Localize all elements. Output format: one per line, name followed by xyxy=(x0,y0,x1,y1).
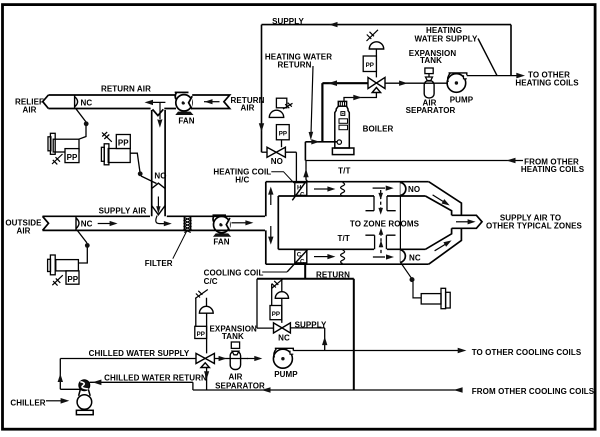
pipe heating supply main xyxy=(262,25,512,153)
arrow chilled return mid xyxy=(262,387,271,393)
pipe boiler outlet xyxy=(344,93,376,103)
svg-text:PUMP: PUMP xyxy=(274,370,298,379)
arrow return air flow left xyxy=(204,101,220,103)
svg-text:BOILER: BOILER xyxy=(363,124,394,133)
mixing box outer shell xyxy=(425,182,482,265)
svg-text:C: C xyxy=(297,252,302,259)
svg-text:NC: NC xyxy=(81,220,93,229)
return air entry duct xyxy=(192,95,230,109)
arrow into boiler xyxy=(311,139,319,144)
svg-text:AIR: AIR xyxy=(16,227,30,236)
arrow boiler outlet xyxy=(353,95,362,100)
svg-text:RETURN: RETURN xyxy=(278,61,312,70)
svg-text:FILTER: FILTER xyxy=(145,259,173,268)
svg-text:PP: PP xyxy=(272,311,280,318)
pipe from other heating coils xyxy=(305,160,523,162)
svg-text:PP: PP xyxy=(366,62,374,69)
arrow from other cooling coils xyxy=(454,387,463,393)
svg-text:FAN: FAN xyxy=(178,116,194,125)
pipe boiler return header xyxy=(305,83,337,160)
arrow mixed air into supply duct xyxy=(156,216,166,224)
outside air duct xyxy=(43,216,266,230)
wire chiller label arrow xyxy=(46,400,61,402)
svg-text:PP: PP xyxy=(279,131,287,138)
actuator PP chilled valve xyxy=(195,290,213,354)
valve NC cooling coil xyxy=(257,279,325,351)
damper zone hot deck xyxy=(366,186,396,215)
svg-text:SUPPLY AIR: SUPPLY AIR xyxy=(99,207,147,216)
damper NC zone semicircle xyxy=(400,250,405,263)
damper NC outside air blade xyxy=(76,217,79,230)
svg-text:AIR: AIR xyxy=(22,106,36,115)
svg-text:WATER SUPPLY: WATER SUPPLY xyxy=(415,35,479,44)
return air line from zones xyxy=(257,264,354,390)
svg-text:NC: NC xyxy=(278,334,290,343)
damper rod zone NO/NC xyxy=(400,182,421,298)
pump heating xyxy=(447,73,467,92)
arrow mixed air down xyxy=(157,197,159,208)
air separator chilled xyxy=(230,351,240,369)
node relief linkage xyxy=(84,121,89,126)
actuator PP heating coil valve xyxy=(269,98,292,147)
wire outside air damper linkage xyxy=(77,230,87,263)
arrow chilled bypass down xyxy=(204,371,209,379)
arrow plenum up xyxy=(270,193,272,206)
svg-text:T/T: T/T xyxy=(338,167,350,176)
fan return-air xyxy=(175,92,194,115)
actuator PP NC valve xyxy=(270,279,289,323)
svg-text:OTHER TYPICAL ZONES: OTHER TYPICAL ZONES xyxy=(486,222,583,231)
wire heating coil label leader xyxy=(271,172,294,183)
heating coil H/C box xyxy=(292,180,307,201)
arrow chilled return into chiller xyxy=(92,380,101,386)
svg-text:CHILLER: CHILLER xyxy=(10,398,45,407)
damper NO mixing capsule xyxy=(152,183,165,215)
actuator PP mixing damper NO xyxy=(101,132,130,165)
vertical mixing duct xyxy=(152,110,165,216)
arrow from other heating coils xyxy=(507,158,516,164)
arrow heating coil return up xyxy=(303,169,308,178)
damper NO zone semicircle xyxy=(400,182,405,195)
svg-text:C: C xyxy=(300,192,305,199)
pump chilled xyxy=(273,348,293,368)
node zone damper rod xyxy=(410,277,415,282)
svg-text:PP: PP xyxy=(197,331,205,338)
svg-text:SEPARATOR: SEPARATOR xyxy=(406,106,456,115)
wire heating water supply leader xyxy=(478,39,497,76)
valve 3-way boiler with PP xyxy=(322,77,448,92)
svg-text:SUPPLY: SUPPLY xyxy=(295,320,327,329)
node mixing linkage xyxy=(138,171,143,176)
arrow chiller outlet up xyxy=(58,374,63,382)
arrow hot deck flow xyxy=(314,188,329,190)
svg-text:T/T: T/T xyxy=(338,234,350,243)
arrow chilled supply up to NC valve xyxy=(322,337,327,346)
arrow to other cooling coils xyxy=(458,348,467,354)
svg-text:PP: PP xyxy=(67,153,78,162)
pipe chilled supply riser chiller xyxy=(60,359,80,390)
damper NC relief blade xyxy=(75,95,78,108)
sensor T/T cold deck xyxy=(341,250,345,264)
valve 3-way chilled with dome xyxy=(60,353,248,367)
expansion tank chilled xyxy=(231,342,239,355)
arrow heating supply down xyxy=(259,123,264,132)
return duct tee splitter xyxy=(153,109,164,115)
wire cooling coil label leader xyxy=(262,271,287,273)
wire mixing damper linkage xyxy=(130,153,156,183)
arrow supply air flow xyxy=(232,222,248,224)
boiler xyxy=(332,101,354,154)
arrow supply to zones xyxy=(456,221,469,223)
actuator PP outside air damper xyxy=(48,255,79,286)
arrow heating supply left xyxy=(329,22,338,27)
arrow return air to relief xyxy=(150,102,165,119)
pipe chilled water return xyxy=(90,382,462,390)
svg-text:TO OTHER COOLING COILS: TO OTHER COOLING COILS xyxy=(472,348,582,357)
svg-text:TANK: TANK xyxy=(420,56,442,65)
svg-text:NO: NO xyxy=(154,172,166,181)
arrow cold branch flow xyxy=(435,244,446,251)
air separator heating xyxy=(424,81,434,98)
chiller xyxy=(76,380,93,415)
return air duct xyxy=(43,95,176,216)
svg-text:SUPPLY: SUPPLY xyxy=(272,17,304,26)
pipe heating water return leader xyxy=(311,66,313,134)
svg-text:AIR: AIR xyxy=(228,373,242,382)
fan supply-air xyxy=(213,215,232,237)
arrow heating supply right xyxy=(399,81,408,86)
arrow cold deck flow xyxy=(314,256,329,258)
expansion tank heating xyxy=(425,68,433,81)
svg-text:NO: NO xyxy=(271,157,283,166)
svg-text:PP: PP xyxy=(118,139,129,148)
node outside air linkage xyxy=(85,243,90,248)
svg-text:CHILLED WATER RETURN: CHILLED WATER RETURN xyxy=(104,373,207,382)
svg-text:HEATING COILS: HEATING COILS xyxy=(521,165,585,174)
arrow plenum down xyxy=(270,226,272,239)
svg-text:C/C: C/C xyxy=(204,277,218,286)
actuator PP relief damper xyxy=(48,133,79,164)
arrow heating bypass left xyxy=(328,80,337,86)
svg-text:FROM OTHER COOLING COILS: FROM OTHER COOLING COILS xyxy=(472,387,595,396)
arrow to other heating coils xyxy=(516,73,525,79)
arrow outside air flow xyxy=(98,223,111,225)
svg-text:FAN: FAN xyxy=(213,237,229,246)
relief air outlet arrow end xyxy=(43,95,49,109)
arrow chilled supply after separator xyxy=(247,358,256,360)
pipe to other cooling coils xyxy=(293,350,459,352)
actuator PP boiler valve xyxy=(363,30,383,78)
pipe heating coil return riser xyxy=(305,161,307,180)
svg-text:TANK: TANK xyxy=(222,332,244,341)
plenum walls xyxy=(266,182,429,265)
sensor T/T hot deck xyxy=(341,183,345,197)
damper zone cold deck xyxy=(365,228,395,260)
svg-text:TO ZONE ROOMS: TO ZONE ROOMS xyxy=(350,219,420,228)
actuator motor zone dampers xyxy=(421,288,450,308)
svg-text:H: H xyxy=(297,185,302,192)
filter xyxy=(184,216,190,232)
pipe pump outlet to other heating coils xyxy=(467,75,518,77)
cooling coil C/C box xyxy=(287,250,307,272)
svg-text:SEPARATOR: SEPARATOR xyxy=(215,381,265,390)
wire relief damper linkage xyxy=(76,108,86,139)
valve NO heating coil 3-way xyxy=(262,147,297,182)
arrow hot branch flow xyxy=(433,195,444,202)
svg-text:NC: NC xyxy=(409,253,421,262)
svg-text:AIR: AIR xyxy=(240,104,254,113)
svg-text:PUMP: PUMP xyxy=(450,95,474,104)
svg-text:RETURN: RETURN xyxy=(316,270,350,279)
arrow return air down into mixing xyxy=(157,119,162,128)
svg-text:HEATING COILS: HEATING COILS xyxy=(515,78,579,87)
svg-text:NC: NC xyxy=(81,98,93,107)
wire filter label leader xyxy=(173,232,187,259)
svg-text:NO: NO xyxy=(408,185,420,194)
svg-text:RETURN AIR: RETURN AIR xyxy=(101,85,151,94)
arrow chilled supply after valve xyxy=(218,358,222,360)
svg-text:H/C: H/C xyxy=(235,176,249,185)
pipe chilled valve bypass down xyxy=(206,368,208,391)
svg-text:PP: PP xyxy=(67,275,78,284)
svg-text:CHILLED WATER SUPPLY: CHILLED WATER SUPPLY xyxy=(89,349,190,358)
